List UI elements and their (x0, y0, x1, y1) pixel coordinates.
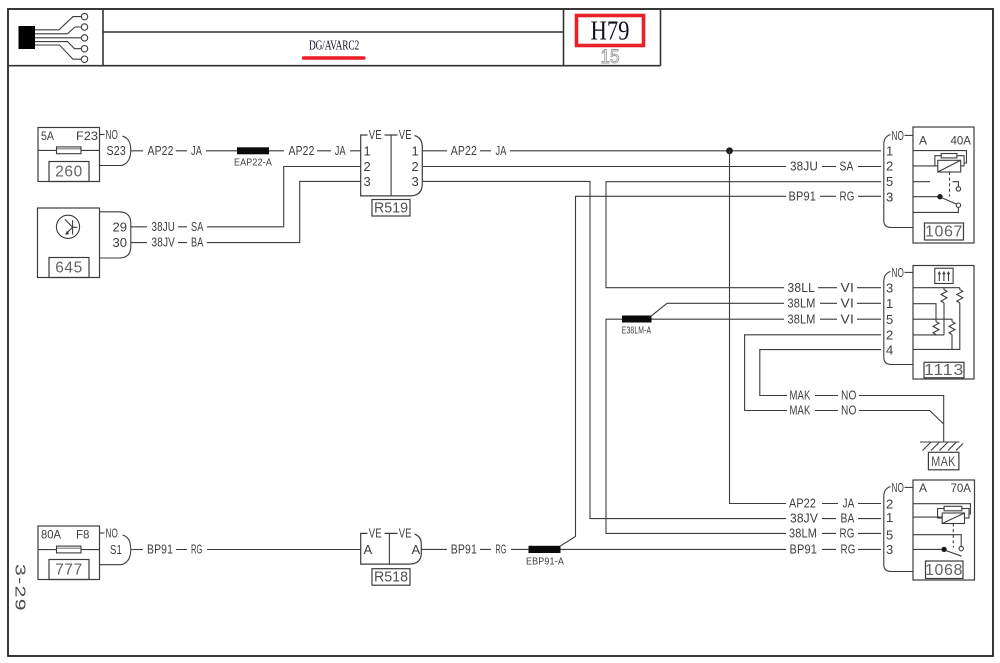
header middle line of title cell (103, 31, 564, 33)
resistor upper left (941, 288, 947, 303)
relay 1068: NO contact from pin 5 (913, 535, 961, 547)
svg-text:VE: VE (399, 127, 412, 142)
svg-text:38JU: 38JU (152, 219, 176, 234)
svg-text:JA: JA (496, 143, 507, 158)
svg-text:15: 15 (601, 47, 620, 68)
svg-text:777: 777 (55, 562, 83, 579)
svg-text:JA: JA (191, 143, 202, 158)
relay 1068: main box (913, 480, 975, 580)
relay 1067: output line (913, 208, 958, 213)
svg-text:VE: VE (369, 526, 382, 541)
svg-text:3: 3 (364, 174, 371, 189)
heater 1113: pin3 feed to upper resistors (913, 287, 960, 289)
svg-text:VI: VI (841, 311, 855, 326)
wire BP91-RG from R518 through EBP91-A to 1068.3 (421, 548, 881, 550)
svg-text:RG: RG (841, 542, 856, 557)
svg-text:70A: 70A (951, 481, 972, 495)
connector S23: NO tick (100, 134, 105, 136)
svg-text:RG: RG (840, 188, 855, 203)
svg-text:38LM: 38LM (788, 295, 816, 310)
svg-text:A: A (412, 542, 421, 557)
1113: upper-left resistor to pin2 row (943, 303, 945, 335)
svg-text:5: 5 (886, 174, 893, 189)
harness connector icon: wire 2 (35, 27, 81, 34)
R518 divider (388, 533, 390, 564)
box 777 label (49, 560, 89, 580)
splice EBP91-A (529, 546, 561, 553)
svg-text:MAK: MAK (790, 403, 811, 418)
wire 38LM-VI from splice to 1113.5 (652, 318, 882, 320)
relay 1067: coil line from pin 2 (913, 165, 938, 167)
relay connector R518 (361, 533, 422, 564)
svg-text:EAP22-A: EAP22-A (234, 158, 272, 169)
wire BP91-RG from 1067.3 down to splice EBP91-A (561, 196, 882, 546)
svg-text:BA: BA (841, 511, 855, 526)
svg-text:2: 2 (412, 159, 419, 174)
svg-text:BA: BA (191, 235, 204, 250)
relay 1068: connector bracket (884, 487, 913, 572)
svg-text:1: 1 (412, 143, 419, 158)
svg-text:F23: F23 (76, 129, 98, 143)
harness connector icon: black body (19, 26, 36, 49)
header divider before H79 cell (563, 9, 565, 66)
harness connector icon: wire 1 (35, 17, 81, 30)
svg-text:38JV: 38JV (152, 235, 176, 250)
wire 38JU-SA from 645.29 to R519.2 (131, 167, 361, 227)
svg-text:38JV: 38JV (790, 511, 818, 526)
unit 645: outer box (38, 208, 100, 278)
svg-text:NO: NO (892, 265, 905, 280)
svg-text:JA: JA (335, 143, 346, 158)
1113: pin2 row (913, 334, 944, 336)
svg-text:1: 1 (364, 143, 371, 158)
svg-text:F8: F8 (76, 528, 90, 542)
relay 1068: coil feed from pin 2 (913, 504, 970, 514)
svg-text:3: 3 (886, 281, 893, 296)
fuse F8: internal line (38, 549, 57, 551)
svg-text:VI: VI (841, 295, 855, 310)
connector on 645 with pins 29/30 (100, 212, 131, 258)
relay 1067: coil feed from pin 1 (913, 151, 967, 163)
svg-text:1: 1 (886, 510, 893, 525)
relay 1068: common pin 3 with pivot (913, 548, 941, 550)
svg-text:1068: 1068 (925, 562, 963, 579)
svg-text:S1: S1 (110, 542, 122, 557)
box 1067 label (925, 223, 964, 240)
box 1068 label (926, 561, 964, 579)
resistor upper right (957, 288, 963, 303)
svg-text:NO: NO (106, 127, 119, 142)
wire 38LL-VI from 1067.5 down to 1113.3 (606, 182, 881, 288)
svg-text:BP91: BP91 (147, 542, 173, 557)
svg-text:VE: VE (369, 127, 382, 142)
svg-text:EBP91-A: EBP91-A (526, 557, 564, 568)
heater 1113: main box (913, 266, 974, 380)
unit 645: circle symbol (56, 215, 79, 238)
svg-text:260: 260 (55, 164, 83, 181)
fuse F23: fuse symbol (57, 147, 82, 154)
splice EAP22-A (237, 147, 269, 154)
resistor lower right (949, 322, 955, 335)
1113: pin5 feed to lower-right resistor (913, 319, 952, 321)
svg-text:RG: RG (496, 542, 507, 557)
svg-text:BP91: BP91 (451, 542, 477, 557)
fuse F23: internal line (38, 149, 57, 151)
header divider after icon cell (102, 9, 104, 66)
fuse F8 80A: outer box (38, 526, 100, 580)
relay 1068: switch arm (946, 551, 962, 557)
svg-text:AP22: AP22 (451, 143, 477, 158)
relay 1067: common pin 3 with pivot (913, 196, 938, 198)
relay 1067: main box (913, 127, 974, 243)
svg-text:38LM: 38LM (789, 526, 817, 541)
svg-text:H79: H79 (591, 16, 630, 46)
svg-text:1067: 1067 (925, 224, 963, 241)
svg-text:NO: NO (841, 388, 857, 403)
svg-text:A: A (919, 481, 927, 495)
1113: pin1 feed to lower-left resistor (913, 304, 936, 322)
junction node on AP22 wire (726, 147, 733, 154)
svg-text:NO: NO (106, 526, 119, 541)
connector S1: NO tick (100, 532, 105, 534)
svg-text:38LL: 38LL (788, 280, 816, 295)
svg-text:SA: SA (191, 219, 204, 234)
svg-text:38JU: 38JU (790, 159, 818, 174)
svg-text:30: 30 (113, 235, 128, 250)
svg-text:5A: 5A (41, 129, 54, 143)
wire AP22-JA from junction down to 1068.2 (730, 151, 882, 504)
connector S23: arc (100, 136, 131, 165)
svg-text:1113: 1113 (924, 362, 964, 379)
R519 VE labels (368, 129, 385, 142)
svg-text:A: A (919, 134, 927, 148)
wire MAK-NO from 1113.2 to ground (745, 335, 944, 424)
box 260 label (49, 162, 89, 182)
svg-text:3: 3 (886, 189, 893, 204)
relay 1068: coil line from pin 1 (913, 516, 942, 518)
heater unit 1113: connector bracket (884, 272, 913, 365)
wire AP22-JA from R519.1 to 1067.1 (422, 150, 881, 152)
svg-text:VE: VE (399, 526, 412, 541)
relay 1067: coil (935, 156, 964, 166)
ground MAK (920, 441, 960, 443)
svg-text:3: 3 (412, 174, 419, 189)
svg-text:5: 5 (886, 312, 893, 327)
svg-text:NO: NO (841, 403, 857, 418)
svg-text:29: 29 (113, 220, 128, 235)
wire BP91-RG from S1 to R518 (131, 549, 361, 551)
harness connector icon: wire 5 (35, 45, 81, 59)
svg-text:DG/AVARC2: DG/AVARC2 (309, 38, 359, 53)
harness connector icon: wire 4 (35, 42, 81, 49)
svg-text:AP22: AP22 (289, 143, 315, 158)
svg-text:5: 5 (886, 527, 893, 542)
svg-text:MAK: MAK (790, 388, 811, 403)
svg-text:E38LM-A: E38LM-A (622, 326, 652, 337)
label H79 red box (577, 16, 644, 46)
connector S1: arc (100, 535, 131, 565)
resistor lower left (933, 322, 939, 335)
svg-text:3-29: 3-29 (12, 564, 29, 612)
box R519 label (372, 200, 410, 217)
wire 38JV from R519.3 down to 1068.1 (422, 181, 881, 518)
relay 1067: dashed actuator link (949, 172, 951, 197)
relay 1067: NC contact (953, 182, 959, 187)
svg-text:NO: NO (892, 128, 905, 143)
wire MAK-NO from 1113.4 to ground (760, 350, 944, 442)
R518 VE labels (368, 527, 385, 540)
svg-text:MAK: MAK (931, 453, 956, 469)
relay 1068: coil (938, 509, 969, 519)
svg-text:BP91: BP91 (789, 188, 817, 203)
box 645 label (49, 258, 89, 278)
box 1113 label (924, 362, 964, 378)
svg-text:2: 2 (886, 327, 893, 342)
svg-text:40A: 40A (951, 134, 972, 148)
wire 38JV-BA from 645.30 to R519.3 (131, 181, 361, 242)
wire 38LM-VI from splice to 1113.1 (652, 303, 882, 316)
svg-text:NO: NO (892, 480, 905, 495)
svg-text:2: 2 (886, 159, 893, 174)
svg-text:AP22: AP22 (789, 496, 816, 511)
red underline (302, 56, 366, 60)
splice E38LM-A (622, 316, 652, 323)
svg-text:645: 645 (55, 260, 83, 277)
wire 38JU-SA from R519.2 to 1067.2 (422, 166, 881, 168)
1113: lower-right resistor to pin4 row (951, 335, 953, 350)
heater 1113: heater icon (935, 268, 953, 283)
svg-text:80A: 80A (41, 528, 61, 542)
relay 1067: pin 5 stub (913, 181, 930, 183)
svg-text:1: 1 (886, 296, 893, 311)
svg-text:38LM: 38LM (788, 311, 816, 326)
svg-text:JA: JA (843, 496, 855, 511)
relay connector R519 (361, 135, 423, 196)
svg-text:A: A (364, 542, 373, 557)
svg-text:3: 3 (886, 542, 893, 557)
relay 1068: dashed actuator link (952, 524, 954, 548)
svg-text:AP22: AP22 (148, 143, 174, 158)
svg-text:4: 4 (886, 342, 893, 357)
svg-text:R518: R518 (374, 569, 408, 586)
svg-text:R519: R519 (374, 200, 408, 217)
box R518 label (372, 569, 410, 586)
wire AP22-JA from S23 to R519 pin1 (131, 150, 361, 152)
wire 38LM from splice left down to 1068.5 (606, 319, 881, 533)
svg-text:RG: RG (191, 542, 203, 557)
header band bottom line (8, 65, 661, 67)
svg-text:S23: S23 (107, 143, 127, 158)
fuse F8: fuse symbol (57, 546, 82, 553)
relay 1067: switch arm (942, 198, 957, 205)
relay 1067: connector bracket (884, 135, 913, 228)
harness connector icon: wire 3 (35, 37, 81, 39)
svg-text:SA: SA (840, 159, 854, 174)
svg-text:VI: VI (841, 280, 855, 295)
svg-text:BP91: BP91 (790, 542, 818, 557)
header right edge of H79 cell (660, 9, 662, 66)
svg-text:2: 2 (364, 159, 371, 174)
R519 divider (390, 135, 392, 196)
svg-text:1: 1 (886, 143, 893, 158)
fuse F23 5A: outer box (38, 128, 100, 182)
svg-text:RG: RG (840, 526, 855, 541)
box MAK label (928, 452, 959, 470)
1113: pin4 row and upper-right resistor return (913, 303, 960, 350)
